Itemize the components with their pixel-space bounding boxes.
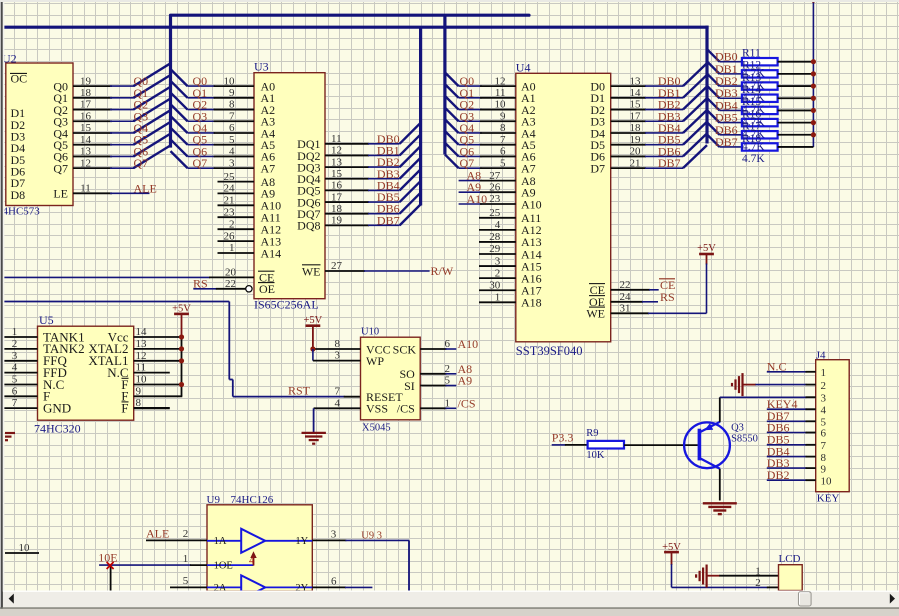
bus exit Q6 to U3 xyxy=(171,139,188,156)
wire +5V down to LCD pin2 xyxy=(671,564,673,587)
U4 pin 13 wire DB0 xyxy=(611,85,646,87)
U3 pin 7 wire Q3 xyxy=(188,120,216,122)
svg-text:5: 5 xyxy=(183,575,189,587)
U4 pin 27 wire A8 xyxy=(459,180,482,182)
wire DB1 to resistor R12 xyxy=(720,73,742,75)
U9 pin 6 wire 2Y out xyxy=(312,586,346,588)
U4 pin 14 wire DB1 xyxy=(611,97,646,99)
svg-text:5: 5 xyxy=(12,374,18,386)
U3 pin 8 wire Q2 xyxy=(188,109,216,111)
bus exit Q0 to U3 xyxy=(171,69,188,86)
wire LCD pin2 horizontal xyxy=(672,586,768,588)
resistor R11 body 4.7K xyxy=(742,58,778,65)
U3 pin 21 stub wire A10 xyxy=(218,204,255,206)
svg-text:4: 4 xyxy=(249,555,255,567)
svg-text:U9 3: U9 3 xyxy=(361,531,382,542)
svg-text:7: 7 xyxy=(500,134,506,146)
wire LCD pin1 to ground xyxy=(707,575,720,577)
svg-text:10: 10 xyxy=(19,542,31,554)
U10 pin 2 wire SO / A8 xyxy=(420,373,446,375)
U4 pin 3 stub wire A15 xyxy=(479,265,516,267)
wire resistor R16 to +5V rail xyxy=(778,122,814,124)
svg-text:A7: A7 xyxy=(261,161,276,175)
bus entry Q0 from U2 xyxy=(134,63,171,86)
svg-text:3: 3 xyxy=(12,350,18,362)
connector J4 KEY body xyxy=(816,360,850,492)
svg-text:DB7: DB7 xyxy=(658,156,681,170)
svg-text:5: 5 xyxy=(229,134,235,146)
svg-text:3: 3 xyxy=(229,157,235,169)
svg-text:DB7: DB7 xyxy=(715,135,738,149)
bus entry DB4 from U4 xyxy=(683,110,707,133)
bus exit Q1 to U4 xyxy=(445,84,459,98)
svg-text:WE: WE xyxy=(586,307,605,321)
svg-text:LE: LE xyxy=(53,187,68,201)
bus entry Q3 from U2 xyxy=(134,98,171,121)
svg-text:5: 5 xyxy=(500,157,506,169)
U4 pin 21 wire DB7 xyxy=(611,167,646,169)
svg-text:15: 15 xyxy=(331,168,343,180)
U4 pin 24 wire RS net xyxy=(611,301,643,303)
bus: vertical riser from U2 outputs xyxy=(169,15,172,147)
svg-text:2: 2 xyxy=(495,267,501,279)
U3 pin 19 wire DB7 xyxy=(325,224,369,226)
svg-text:8: 8 xyxy=(500,122,506,134)
U5 left pin 6 wire xyxy=(4,395,38,397)
J4 pin 8 wire xyxy=(767,456,807,458)
svg-text:3: 3 xyxy=(821,392,827,404)
bus entry DB1 from U4 xyxy=(683,75,707,98)
svg-text:R11: R11 xyxy=(742,48,761,60)
svg-text:ALE: ALE xyxy=(146,526,169,540)
bus exit Q4 to U3 xyxy=(171,116,188,133)
U3 pin 22 wire OE / RS net xyxy=(193,288,216,290)
svg-text:4: 4 xyxy=(335,397,341,409)
U4 pin 29 stub wire A14 xyxy=(479,253,516,255)
U4 pin 5 wire Q7 xyxy=(459,167,482,169)
U3 pin 6 wire Q4 xyxy=(188,132,216,134)
bus exit DB1 to pull-up xyxy=(707,61,720,73)
svg-text:14: 14 xyxy=(630,87,642,99)
wire Q3 emitter up to J4 pin3 net xyxy=(719,397,721,422)
svg-text:15: 15 xyxy=(630,99,642,111)
svg-text:4.7K: 4.7K xyxy=(742,153,765,165)
wire resistor R14 to +5V rail xyxy=(778,97,814,99)
svg-text:1: 1 xyxy=(12,326,18,338)
svg-text:A10: A10 xyxy=(521,197,542,211)
svg-text:9: 9 xyxy=(229,87,235,99)
svg-text:1: 1 xyxy=(821,367,827,379)
svg-text:14: 14 xyxy=(80,134,92,146)
U9 pin 2 wire ALE xyxy=(146,539,207,541)
svg-text:17: 17 xyxy=(80,99,92,111)
wire resistor R15 to +5V rail xyxy=(778,109,814,111)
svg-text:U5: U5 xyxy=(39,313,54,327)
svg-text:27: 27 xyxy=(489,170,501,182)
svg-text:X5045: X5045 xyxy=(362,423,391,434)
svg-text:10: 10 xyxy=(136,374,148,386)
wire net y301 from left edge xyxy=(3,301,229,303)
svg-text:26: 26 xyxy=(224,230,236,242)
svg-text:D8: D8 xyxy=(11,188,26,202)
svg-text:RS: RS xyxy=(660,290,675,304)
no-ERC cross on 10E junction xyxy=(107,562,114,569)
U4 pin 9 wire Q3 xyxy=(459,120,482,122)
svg-text:A14: A14 xyxy=(261,246,282,260)
svg-text:1: 1 xyxy=(445,397,451,409)
svg-text:U9: U9 xyxy=(207,494,221,506)
svg-text:6: 6 xyxy=(229,122,235,134)
J4 pin 3 wire to Q3 emitter xyxy=(720,396,807,398)
U5 left pin 7 wire xyxy=(4,407,38,409)
bus entry DB2 from U3 xyxy=(400,146,421,167)
horizontal scrollbar xyxy=(3,591,899,593)
U3 pin 27 wire WE / R/W net xyxy=(325,270,365,272)
junction on +5V rail row 2 xyxy=(811,83,816,88)
svg-text:RS: RS xyxy=(193,276,208,290)
U2 pin 16 wire Q3 xyxy=(73,120,112,122)
bus exit Q3 to U4 xyxy=(445,108,459,122)
svg-text:4: 4 xyxy=(12,362,18,374)
U10 pin 6 wire SCK / A10 xyxy=(420,348,446,350)
U4 pin 23 wire A10 xyxy=(459,203,482,205)
svg-text:8: 8 xyxy=(335,338,341,350)
wire DB6 to resistor R17 xyxy=(720,134,742,136)
U3 pin 15 wire DB3 xyxy=(325,178,369,180)
bus entry DB4 from U3 xyxy=(400,169,421,190)
wire resistor R11 to +5V rail xyxy=(778,61,814,63)
U4 pin 4 stub wire A12 xyxy=(479,229,516,231)
U3 pin 2 stub wire A12 xyxy=(218,228,255,230)
svg-text:6: 6 xyxy=(12,385,18,397)
U3 pin 25 stub wire A8 xyxy=(218,181,255,183)
svg-text:Q3: Q3 xyxy=(731,423,744,434)
IC U5 74HC320 body xyxy=(38,326,134,420)
J4 pin 4 wire xyxy=(767,408,807,410)
red tip at top of +5V rail (cut off) xyxy=(812,0,815,3)
U3 pin 13 wire DB2 xyxy=(325,166,369,168)
svg-text:2: 2 xyxy=(229,218,235,230)
junction on +5V rail row 1 xyxy=(811,71,816,76)
junction on +5V rail row 0 xyxy=(811,59,816,64)
svg-text:1: 1 xyxy=(495,291,501,303)
resistor R16 body 4.7K xyxy=(742,119,778,126)
svg-text:18: 18 xyxy=(630,122,642,134)
svg-text:8: 8 xyxy=(136,397,142,409)
ground symbol below Q3 xyxy=(703,502,737,504)
svg-text:4: 4 xyxy=(495,219,501,231)
svg-text:U10: U10 xyxy=(361,327,379,338)
svg-text:GND: GND xyxy=(43,400,71,415)
svg-text:24: 24 xyxy=(224,183,236,195)
svg-text:+5V: +5V xyxy=(697,243,716,254)
bus exit Q4 to U4 xyxy=(445,119,459,133)
svg-text:SST39SF040: SST39SF040 xyxy=(516,344,583,358)
U9 gate2 output line 2Y xyxy=(265,586,312,588)
U3 pin 4 wire Q6 xyxy=(188,155,216,157)
svg-text:SCK: SCK xyxy=(393,342,417,356)
bus exit Q0 to U4 xyxy=(445,72,459,86)
svg-text:11: 11 xyxy=(136,362,147,374)
svg-text:22: 22 xyxy=(620,279,631,291)
svg-text:27: 27 xyxy=(331,260,343,272)
svg-text:22: 22 xyxy=(225,278,236,290)
U3 pin 12 wire DB1 xyxy=(325,154,369,156)
svg-text:25: 25 xyxy=(489,207,501,219)
U5 left pin 5 wire xyxy=(4,384,38,386)
U3 pin 9 wire Q1 xyxy=(188,97,216,99)
resistor R17 body 4.7K xyxy=(742,131,778,138)
ground symbol sideways for LCD pin1 xyxy=(705,565,707,588)
wire resistor R12 to +5V rail xyxy=(778,73,814,75)
U4 pin 1 stub wire A18 xyxy=(479,301,516,303)
svg-text:74HC573: 74HC573 xyxy=(0,206,40,218)
junction on +5V rail row 6 xyxy=(811,132,816,137)
U4 pin 6 wire Q6 xyxy=(459,155,482,157)
svg-text:19: 19 xyxy=(630,134,642,146)
wire +5V down to WE xyxy=(706,264,708,314)
transistor Q3 S8550 xyxy=(684,422,730,468)
U9 gate1 enable pin 4 arrow xyxy=(253,554,255,566)
bus exit Q7 to U3 xyxy=(171,151,188,168)
svg-text:1A: 1A xyxy=(214,536,227,547)
resistor R9 body xyxy=(588,441,624,449)
wire resistor R17 to +5V rail xyxy=(778,134,814,136)
U4 pin 11 wire Q1 xyxy=(459,97,482,99)
bus exit DB3 to pull-up xyxy=(707,86,720,99)
svg-text:10: 10 xyxy=(495,99,507,111)
wire P3.3 to R9 xyxy=(552,444,566,446)
svg-text:13: 13 xyxy=(136,338,148,350)
U10 pin 8 wire VCC xyxy=(313,348,361,350)
connector LCD body xyxy=(779,565,803,591)
svg-text:D7: D7 xyxy=(590,161,605,175)
wire +5V to WP row xyxy=(312,349,314,361)
U5 left pin 4 wire xyxy=(4,372,38,374)
svg-text:18: 18 xyxy=(331,203,343,215)
bus entry DB6 from U4 xyxy=(683,133,707,156)
U5 right pin 10 wire to +5V xyxy=(134,384,182,386)
svg-text:DQ8: DQ8 xyxy=(297,219,320,233)
svg-text:IS65C256AL: IS65C256AL xyxy=(254,298,319,312)
U9 gate1 enable line 1OE xyxy=(207,564,254,566)
U4 pin 30 stub wire A17 xyxy=(479,289,516,291)
svg-text:2: 2 xyxy=(821,380,827,392)
svg-text:1: 1 xyxy=(755,565,761,577)
wire Q3 collector down to ground xyxy=(719,469,721,501)
bus exit DB2 to pull-up xyxy=(707,74,720,87)
svg-text:12: 12 xyxy=(80,157,91,169)
stub wire at left edge y553 with pin number 10 xyxy=(5,552,39,554)
svg-text:13: 13 xyxy=(331,156,343,168)
bus exit Q2 to U4 xyxy=(445,96,459,110)
svg-text:2: 2 xyxy=(12,338,18,350)
U3 pin 17 wire DB5 xyxy=(325,201,369,203)
svg-text:4: 4 xyxy=(821,404,827,416)
junction on +5V rail row 4 xyxy=(811,108,816,113)
U3 pin 5 wire Q5 xyxy=(188,144,216,146)
svg-text:DB2: DB2 xyxy=(767,468,790,482)
wire 10E branch down to sheet edge xyxy=(110,565,112,590)
svg-text:R15: R15 xyxy=(742,96,761,108)
svg-text:S8550: S8550 xyxy=(731,434,758,445)
U3 pin 18 wire DB6 xyxy=(325,213,369,215)
svg-text:OE: OE xyxy=(259,282,275,296)
svg-text:17: 17 xyxy=(630,110,642,122)
svg-text:WE: WE xyxy=(302,264,321,278)
U9 pin 3 wire 1Y out xyxy=(312,539,346,541)
bus exit Q2 to U3 xyxy=(171,93,188,110)
wire +5V rail vertical to pull-ups xyxy=(812,0,814,147)
svg-text:Q7: Q7 xyxy=(193,156,208,170)
U5 left pin 1 wire xyxy=(4,336,38,338)
svg-text:6: 6 xyxy=(445,338,451,350)
svg-text:14: 14 xyxy=(136,326,148,338)
U9 gate 2 buffer triangle xyxy=(241,575,265,599)
svg-text:2: 2 xyxy=(445,363,451,375)
svg-text:26: 26 xyxy=(489,181,501,193)
svg-text:19: 19 xyxy=(331,215,343,227)
svg-text:6: 6 xyxy=(500,146,506,158)
IC U10 X5045 body xyxy=(361,337,421,420)
svg-text:13: 13 xyxy=(80,146,92,158)
U4 pin 12 wire Q0 xyxy=(459,85,482,87)
U2 pin 18 wire Q1 xyxy=(73,97,112,99)
U4 pin 10 wire Q2 xyxy=(459,109,482,111)
U2 pin 19 wire Q0 xyxy=(73,85,112,87)
svg-text:11: 11 xyxy=(495,87,506,99)
U5 left pin 2 wire xyxy=(4,348,38,350)
bus: vertical riser to U3 DQ xyxy=(419,27,422,205)
wire +5V stem down pin rows xyxy=(181,337,183,396)
svg-text:12: 12 xyxy=(331,145,342,157)
U5 right pin 14 wire to +5V xyxy=(134,336,182,338)
window top border xyxy=(0,0,899,2)
svg-text:5: 5 xyxy=(821,417,827,429)
svg-text:16: 16 xyxy=(80,110,92,122)
svg-text:12: 12 xyxy=(136,350,147,362)
svg-text:31: 31 xyxy=(620,303,631,315)
svg-text:R9: R9 xyxy=(586,428,598,439)
bus entry DB7 from U3 xyxy=(400,204,421,225)
U9 gate1 output line 1Y xyxy=(265,540,312,542)
bus exit Q5 to U4 xyxy=(445,131,459,145)
svg-text:SI: SI xyxy=(404,379,415,393)
bus exit DB0 to pull-up xyxy=(707,49,720,62)
J4 pin 9 wire xyxy=(767,467,807,469)
svg-text:21: 21 xyxy=(224,195,235,207)
J4 pin 2 wire to ground xyxy=(743,384,757,386)
svg-text:20: 20 xyxy=(225,267,237,279)
J4 pin 10 wire xyxy=(767,479,807,481)
bus entry DB1 from U3 xyxy=(400,134,421,155)
ground symbol lower-left (cut off) xyxy=(5,432,15,434)
wire R9 to Q3 base xyxy=(624,444,698,446)
svg-text:11: 11 xyxy=(331,133,342,145)
svg-text:9: 9 xyxy=(500,110,506,122)
U3 pin 20 wire CE from left edge xyxy=(3,276,210,278)
U4 pin 25 stub wire A11 xyxy=(479,217,516,219)
svg-text:8: 8 xyxy=(821,452,827,464)
U4 pin 31 wire WE to +5V xyxy=(611,312,649,314)
svg-text:A9: A9 xyxy=(458,374,473,388)
wire DB7 to resistor R18 xyxy=(720,146,742,148)
bus exit Q3 to U3 xyxy=(171,104,188,121)
svg-text:23: 23 xyxy=(489,193,501,205)
U10 pin 1 wire /CS xyxy=(420,407,446,409)
svg-text:17: 17 xyxy=(331,191,343,203)
U4 pin 20 wire DB6 xyxy=(611,155,646,157)
U2 pin 11 wire ALE xyxy=(73,192,112,194)
U2 pin 17 wire Q2 xyxy=(73,109,112,111)
svg-text:1: 1 xyxy=(183,553,189,565)
bus entry DB0 from U3 xyxy=(400,123,421,144)
U5 right pin 12 wire to +5V xyxy=(134,360,182,362)
svg-text:74HC320: 74HC320 xyxy=(34,422,81,436)
U5 right pin 9 wire xyxy=(134,395,183,397)
bus exit Q6 to U4 xyxy=(445,143,459,157)
U4 pin 26 wire A9 xyxy=(459,191,482,193)
ground symbol below U10 xyxy=(302,432,326,434)
svg-text:21: 21 xyxy=(630,157,641,169)
svg-text:24: 24 xyxy=(620,291,632,303)
U3 pin 11 wire DB0 xyxy=(325,143,369,145)
bus exit Q5 to U3 xyxy=(171,128,188,145)
svg-text:16: 16 xyxy=(331,180,343,192)
svg-text:3: 3 xyxy=(335,350,341,362)
svg-text:6: 6 xyxy=(821,428,827,440)
svg-text:R/W: R/W xyxy=(431,264,454,278)
U3 pin 3 wire Q7 xyxy=(188,167,216,169)
svg-text:A18: A18 xyxy=(521,296,542,310)
svg-text:P3.3: P3.3 xyxy=(552,430,574,444)
svg-text:7: 7 xyxy=(229,110,235,122)
svg-text:29: 29 xyxy=(489,243,501,255)
bus: address bus horizontal upper xyxy=(171,14,530,17)
svg-text:LCD: LCD xyxy=(779,553,801,565)
U3 pin 16 wire DB4 xyxy=(325,189,369,191)
U4 pin 8 wire Q4 xyxy=(459,132,482,134)
U3 pin 23 stub wire A11 xyxy=(218,216,255,218)
U9 pin 1 wire 10E xyxy=(99,564,191,566)
U3 pin 1 stub wire A14 xyxy=(218,252,255,254)
U5 right pin 11 stub wire xyxy=(134,372,170,374)
bus: vertical riser to pull-up resistors xyxy=(705,26,708,144)
IC U4 SST39SF040 body xyxy=(516,73,611,342)
svg-text:A10: A10 xyxy=(467,192,488,206)
bus entry Q2 from U2 xyxy=(134,87,171,110)
svg-text:7: 7 xyxy=(12,397,18,409)
svg-text:N.C: N.C xyxy=(767,360,787,374)
svg-text:/CS: /CS xyxy=(458,396,476,410)
bus entry DB2 from U4 xyxy=(683,87,707,110)
U4 pin 19 wire DB5 xyxy=(611,144,646,146)
svg-text:KEY: KEY xyxy=(817,492,840,504)
svg-text:1: 1 xyxy=(229,242,235,254)
svg-text:R17: R17 xyxy=(742,121,761,133)
U2 pin 13 wire Q6 xyxy=(73,155,112,157)
junction +5V stem row 13 xyxy=(179,346,184,351)
svg-text:7: 7 xyxy=(335,386,341,398)
svg-text:9: 9 xyxy=(821,463,827,475)
wire vertical down to RST row xyxy=(228,302,230,380)
svg-text:12: 12 xyxy=(495,75,506,87)
U9 gate2 input line 2A xyxy=(207,586,241,588)
U9 gate 1 buffer triangle xyxy=(241,529,265,553)
svg-text:18: 18 xyxy=(80,87,92,99)
bus entry Q4 from U2 xyxy=(134,110,171,133)
svg-text:Q7: Q7 xyxy=(134,156,149,170)
